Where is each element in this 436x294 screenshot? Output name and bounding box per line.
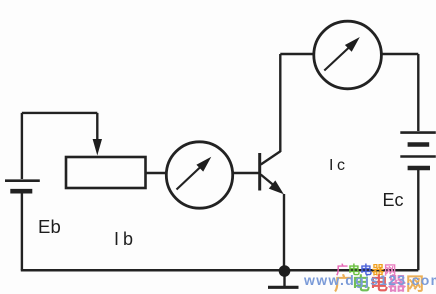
arrowhead into resistor (rheostat arrow) [93,139,102,156]
wire: bottom rail [21,269,419,272]
ammeter M1 (Ib meter) circle [166,142,232,208]
label Ib [114,229,137,250]
wire: Ec battery top lead [417,54,419,131]
battery Ec long plate 1 [400,131,436,134]
ammeter M2 needle arrowhead [345,37,360,52]
ground stub below junction [283,271,285,286]
battery Eb long plate [5,179,40,182]
transistor Q1 emitter arrowhead [269,180,284,194]
watermark url www.dgjs123.com [304,272,436,288]
battery Ec long plate 2 [400,155,436,158]
label Eb [38,216,61,238]
wire: Ec battery bottom lead [417,170,419,270]
wire: meter M2 to Ec battery top [381,53,418,55]
resistor R (rheostat box) [66,157,146,188]
junction node (solder dot) [279,265,291,277]
wire: collector vertical up [279,54,281,152]
wire: emitter vertical down to junction [283,194,285,267]
ammeter M2 (Ic meter) circle [314,21,382,89]
wire: meter M1 to transistor base [233,172,259,174]
label Ic [329,157,348,175]
wire: Eb battery bottom lead [21,194,23,271]
watermark line 1: site name small [336,261,396,278]
ammeter M2 needle line [324,47,350,71]
wire: resistor to meter M1 [146,172,168,174]
wire: top-left horizontal from Eb top to arrow drop [22,112,97,114]
ground bar [268,286,299,289]
watermark line 2: big colored characters behind url [334,270,424,294]
ammeter M1 needle line [177,166,203,190]
transistor Q1 collector diagonal [261,151,281,164]
transistor Q1 base bar [258,153,261,191]
battery Eb short thick plate [10,189,32,194]
wire: collector top horizontal to meter M2 [280,53,314,55]
battery Ec short thick plate 2 [408,166,430,171]
wire: Eb battery top lead [21,113,23,179]
ammeter M1 needle arrowhead [196,157,211,172]
label Ec [383,190,404,211]
wire: vertical drop into resistor box [96,113,98,141]
battery Ec short thick plate 1 [408,142,430,147]
transistor Q1 emitter diagonal [261,175,274,186]
